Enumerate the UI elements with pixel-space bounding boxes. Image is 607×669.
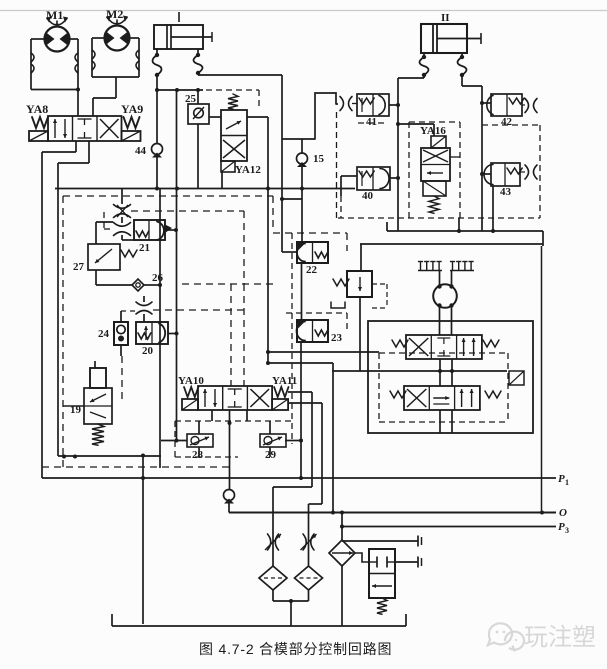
svg-text:1: 1 (565, 478, 569, 487)
svg-text:3: 3 (565, 526, 569, 535)
svg-text:42: 42 (501, 116, 513, 128)
svg-text:19: 19 (70, 404, 82, 416)
svg-text:YA8: YA8 (26, 102, 48, 116)
svg-text:P: P (558, 521, 565, 533)
svg-text:P: P (558, 473, 565, 485)
svg-text:21: 21 (139, 242, 150, 254)
svg-text:O: O (559, 507, 567, 519)
svg-text:II: II (441, 12, 450, 24)
svg-text:28: 28 (192, 449, 204, 461)
svg-text:M1: M1 (46, 8, 63, 22)
svg-text:20: 20 (142, 345, 154, 357)
svg-text:M2: M2 (106, 7, 123, 21)
svg-text:YA12: YA12 (235, 164, 261, 176)
svg-text:25: 25 (185, 93, 197, 105)
svg-text:23: 23 (331, 332, 343, 344)
svg-text:YA10: YA10 (178, 375, 204, 387)
svg-text:22: 22 (306, 264, 318, 276)
svg-text:43: 43 (500, 186, 512, 198)
svg-text:26: 26 (152, 272, 164, 284)
svg-text:40: 40 (362, 190, 374, 202)
svg-text:44: 44 (135, 145, 147, 157)
svg-text:27: 27 (73, 261, 85, 273)
svg-text:15: 15 (313, 153, 325, 165)
svg-text:41: 41 (366, 116, 377, 128)
svg-text:YA9: YA9 (121, 102, 143, 116)
svg-text:玩注塑: 玩注塑 (524, 624, 596, 651)
svg-text:24: 24 (98, 328, 110, 340)
svg-text:图 4.7-2 合模部分控制回路图: 图 4.7-2 合模部分控制回路图 (199, 641, 392, 657)
svg-text:YA11: YA11 (272, 375, 297, 387)
